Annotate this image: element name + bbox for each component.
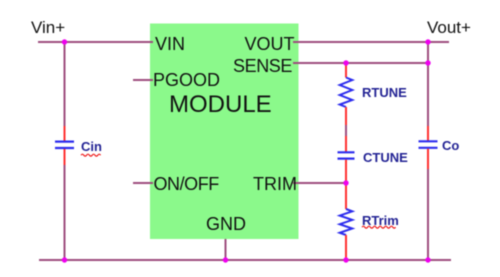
wire CTUNE to TRIM node	[345, 160, 347, 183]
junction node bottom left	[62, 257, 67, 262]
wire ON/OFF stub	[133, 182, 153, 184]
junction node trim	[343, 180, 348, 185]
wire RTrim to bottom rail	[345, 235, 347, 260]
junction node bottom gnd	[223, 257, 228, 262]
capacitor CTUNE value label	[363, 151, 408, 164]
wire CTUNE top lead	[345, 136, 347, 152]
capacitor Co value label	[442, 139, 459, 152]
wire Co top lead	[427, 126, 429, 141]
node Vout+ label	[427, 19, 471, 36]
wire GND stub	[225, 239, 227, 260]
wire right rail upper	[427, 42, 429, 126]
junction node Vout rail top	[425, 39, 430, 44]
node Vin+ label	[31, 19, 65, 36]
wire TRIM	[293, 182, 346, 184]
squiggle under RTrim	[362, 226, 396, 228]
wire SENSE to RTUNE	[345, 63, 347, 78]
pin ON/OFF label	[154, 175, 219, 193]
pin VOUT label	[245, 35, 295, 53]
resistor RTrim value label	[362, 214, 399, 227]
wire left rail lower	[64, 165, 66, 260]
wire SENSE	[293, 62, 428, 64]
pin TRIM label	[253, 175, 297, 193]
resistor RTrim	[340, 209, 353, 235]
squiggle under Cin	[81, 154, 101, 156]
pin SENSE label	[233, 57, 292, 75]
module U1 body	[150, 24, 299, 240]
capacitor Co	[419, 141, 438, 148]
junction node bottom rtrim	[343, 257, 348, 262]
capacitor Cin	[55, 142, 74, 148]
resistor RTUNE	[340, 78, 353, 108]
pin PGOOD label	[153, 71, 220, 89]
junction node bottom co	[425, 257, 430, 262]
junction node sense-co	[425, 60, 430, 65]
wire VOUT to Vout+	[293, 41, 449, 43]
wire Cin top lead	[64, 126, 66, 141]
pin GND label	[206, 215, 246, 233]
wire PGOOD stub	[133, 79, 153, 81]
junction node sense-rtune	[343, 60, 348, 65]
junction node Vin rail	[62, 39, 67, 44]
wire Co bottom lead	[427, 149, 429, 169]
wire Vin+ to VIN	[38, 41, 153, 43]
wire right rail lower	[427, 169, 429, 260]
wire RTUNE to CTUNE red upper	[345, 107, 347, 125]
module name MODULE	[169, 93, 272, 117]
wire RTUNE to CTUNE magenta middle	[345, 125, 347, 136]
pin VIN label	[155, 35, 185, 53]
resistor RTUNE value label	[362, 86, 407, 99]
wire Cin bottom lead	[64, 149, 66, 165]
wire left rail upper	[64, 42, 66, 126]
wire TRIM node to RTrim	[345, 183, 347, 209]
wire bottom rail	[39, 259, 451, 261]
capacitor CTUNE	[338, 152, 355, 158]
capacitor Cin value label	[81, 140, 102, 153]
